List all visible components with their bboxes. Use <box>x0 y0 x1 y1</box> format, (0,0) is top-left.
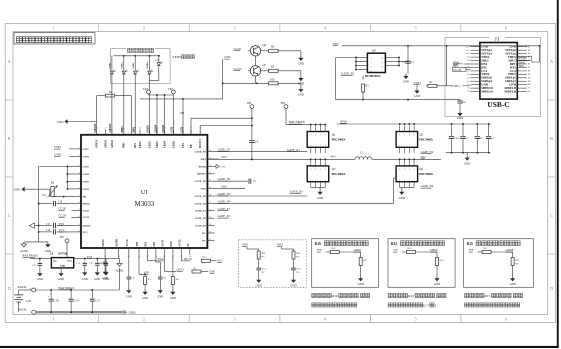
svg-text:Q7: Q7 <box>263 63 267 67</box>
svg-text:NC: NC <box>296 256 300 259</box>
svg-text:7VS: 7VS <box>393 249 398 252</box>
svg-text:8: 8 <box>320 134 321 136</box>
svg-text:GND: GND <box>126 296 132 299</box>
wire TH pin <box>53 196 75 198</box>
svg-text:26: 26 <box>209 209 211 211</box>
wire LTN vertical <box>222 59 224 99</box>
svg-text:A4: A4 <box>467 73 470 76</box>
svg-text:PDC3966X: PDC3966X <box>419 172 434 176</box>
svg-text:CSN1: CSN1 <box>83 155 90 158</box>
svg-text:38: 38 <box>182 128 184 130</box>
svg-text:3: 3 <box>79 165 80 167</box>
svg-text:GATE_N3: GATE_N3 <box>290 189 303 193</box>
transistor Q6 <box>250 46 260 56</box>
connector J1 body <box>480 43 517 100</box>
svg-text:12: 12 <box>78 230 80 232</box>
svg-text:8: 8 <box>315 169 316 171</box>
svg-text:31: 31 <box>209 172 211 174</box>
svg-text:J1: J1 <box>495 36 500 42</box>
U1 bottom pin names rotated <box>104 248 106 255</box>
ground below C12 <box>84 270 86 272</box>
svg-text:A3: A3 <box>467 76 470 79</box>
svg-text:NC: NC <box>262 271 266 274</box>
svg-text:29: 29 <box>209 187 211 189</box>
svg-text:9: 9 <box>79 209 80 211</box>
svg-text:GATE_N4: GATE_N4 <box>195 202 207 205</box>
capacitor C11 under pin13 <box>104 255 106 262</box>
svg-text:GPIO3: GPIO3 <box>111 139 114 148</box>
U1 PGND inline ground <box>215 165 217 167</box>
svg-text:CC1P: CC1P <box>234 47 242 51</box>
ground below C2 <box>459 111 461 113</box>
svg-text:S1: S1 <box>467 88 469 90</box>
ground GND left of thermistor <box>22 187 25 192</box>
note box R12 battery cell-count select resistor <box>388 239 455 288</box>
capacitor C14 <box>70 290 72 299</box>
capacitor C3 <box>488 124 490 136</box>
svg-text:LED4: LED4 <box>163 141 166 148</box>
svg-text:B11: B11 <box>528 81 531 83</box>
ground below Q3 <box>319 190 321 192</box>
ground GND pair right <box>47 242 49 244</box>
capacitor C9 under U1 <box>128 255 130 277</box>
svg-text:LED2: LED2 <box>121 62 123 69</box>
svg-text:VCC8: VCC8 <box>126 239 129 247</box>
svg-text:8: 8 <box>399 134 400 136</box>
svg-text:R12: R12 <box>391 242 397 246</box>
svg-text:PB: PB <box>190 144 193 148</box>
svg-text:BAT NMAX: BAT NMAX <box>23 253 39 257</box>
svg-text:48: 48 <box>96 128 98 130</box>
ground below C8 <box>159 288 161 290</box>
battery G1B <box>18 290 20 295</box>
svg-text:2: 2 <box>79 155 80 157</box>
capacitor C13 bottom <box>91 290 93 299</box>
ground below U2 <box>60 268 62 271</box>
svg-text:6: 6 <box>505 25 507 30</box>
svg-text:GND: GND <box>298 63 304 66</box>
svg-text:GND: GND <box>220 166 225 169</box>
svg-text:PACK: PACK <box>18 285 27 289</box>
net label OUT1 and resistor R3 <box>163 255 165 272</box>
wire GATE_N3 <box>215 195 308 197</box>
analog ground AGND pair <box>24 241 48 243</box>
capacitor C4 bootstrap <box>249 140 254 142</box>
transistor Q5 RU30E40A2 <box>367 53 385 72</box>
svg-text:A6: A6 <box>467 66 470 69</box>
capacitor RC1 NC <box>256 267 261 269</box>
svg-text:GPIO1: GPIO1 <box>96 139 99 148</box>
ground GND feed left of U1 <box>65 119 68 124</box>
svg-text:CSP1: CSP1 <box>83 148 90 151</box>
analog ground AGND left arrow <box>30 223 35 228</box>
wire Q5 sources to GATE_P2 <box>355 58 357 70</box>
capacitor CR2 polarized <box>50 290 52 299</box>
svg-text:5: 5 <box>79 180 80 182</box>
svg-text:GND: GND <box>464 162 470 165</box>
svg-text:BOOT2: BOOT2 <box>197 173 206 176</box>
Q5 right pin stubs <box>385 57 399 59</box>
svg-text:B10: B10 <box>528 77 531 79</box>
svg-text:CSP1: CSP1 <box>452 84 460 88</box>
svg-text:GND: GND <box>102 277 108 280</box>
ground below CSN1 <box>416 85 418 88</box>
svg-text:23: 23 <box>209 232 211 234</box>
resistor R5 <box>144 274 146 276</box>
svg-text:PGND: PGND <box>199 165 206 168</box>
svg-text:SW1: SW1 <box>242 243 249 247</box>
wire PACK+ rail <box>36 289 120 291</box>
svg-text:Q4: Q4 <box>419 167 423 171</box>
svg-text:Q6: Q6 <box>263 43 267 47</box>
svg-text:SYS: SYS <box>145 241 148 246</box>
svg-text:GATE_P2: GATE_P2 <box>218 214 231 218</box>
svg-text:PDC3966X: PDC3966X <box>419 138 434 142</box>
svg-text:GPIO0: GPIO0 <box>506 249 514 252</box>
svg-text:S4: S4 <box>528 91 530 93</box>
svg-text:8: 8 <box>315 134 316 136</box>
U1 right pin stubs and names <box>207 151 214 153</box>
svg-text:22: 22 <box>209 239 211 241</box>
svg-text:D: D <box>550 286 553 291</box>
ground below C15 <box>96 270 98 272</box>
net label CC1P at J1 right <box>518 56 532 60</box>
svg-text:8: 8 <box>310 169 311 171</box>
Q5 left pin stubs <box>356 57 367 59</box>
svg-text:BAT NMAX: BAT NMAX <box>289 120 306 124</box>
svg-text:A: A <box>550 59 553 64</box>
transistor Q1 PDC3966X <box>307 132 329 148</box>
transistor Q4 PDC3966X <box>396 166 418 182</box>
svg-text:SW2: SW2 <box>421 156 427 159</box>
svg-text:SHIELD: SHIELD <box>505 90 517 94</box>
svg-text:GATE_N2: GATE_N2 <box>421 150 434 154</box>
svg-text:CSP1: CSP1 <box>54 145 62 149</box>
svg-text:GATE_P2: GATE_P2 <box>341 72 355 76</box>
svg-text:6: 6 <box>79 187 80 189</box>
svg-text:CC1P: CC1P <box>58 207 66 211</box>
svg-text:GND: GND <box>399 197 405 200</box>
thermistor R6 NTC <box>51 187 54 197</box>
svg-text:S2: S2 <box>528 88 530 90</box>
svg-text:NC: NC <box>262 256 266 259</box>
svg-text:CR2: CR2 <box>54 300 60 303</box>
transistor Q7 <box>250 66 260 76</box>
svg-text:NC: NC <box>187 243 190 247</box>
wire VIN to C1 and USB area <box>342 45 447 47</box>
svg-text:LED1: LED1 <box>139 141 142 148</box>
svg-text:SW1: SW1 <box>201 158 207 161</box>
svg-text:GND: GND <box>60 265 66 268</box>
net label CC1N at J1 <box>452 67 466 71</box>
test point TP3 <box>147 90 151 94</box>
svg-text:45: 45 <box>123 128 125 130</box>
svg-text:GND: GND <box>434 283 440 286</box>
wires LEDs to U1 top pins <box>111 75 113 135</box>
svg-text:S: S <box>371 67 372 69</box>
svg-text:USB-C: USB-C <box>487 100 509 109</box>
svg-text:8: 8 <box>404 134 405 136</box>
svg-text:GND: GND <box>14 187 21 191</box>
svg-text:A8: A8 <box>467 59 470 62</box>
capacitor C7 <box>248 179 250 184</box>
svg-text:LDO33: LDO33 <box>83 225 92 228</box>
svg-text:2: 2 <box>143 316 145 321</box>
svg-text:GND: GND <box>457 117 463 120</box>
svg-text:A: A <box>8 59 11 64</box>
svg-text:NC: NC <box>515 263 519 266</box>
svg-text:46: 46 <box>111 128 113 130</box>
svg-text:Q5: Q5 <box>372 49 376 53</box>
svg-text:A5: A5 <box>467 70 470 73</box>
svg-text:30: 30 <box>209 180 211 182</box>
svg-text:G1B: G1B <box>26 300 31 303</box>
svg-text:32: 32 <box>209 165 211 167</box>
svg-text:GATE_N1: GATE_N1 <box>218 148 231 152</box>
svg-text:CSP2: CSP2 <box>83 165 90 168</box>
svg-text:LED5:: LED5: <box>173 55 182 59</box>
svg-text:1: 1 <box>409 145 410 147</box>
svg-text:GPIO2: GPIO2 <box>105 139 108 148</box>
svg-text:R15: R15 <box>467 242 473 246</box>
svg-text:8: 8 <box>409 169 410 171</box>
wire sense pins bus <box>67 166 74 168</box>
U1 top pin names rotated <box>96 130 98 135</box>
svg-text:36: 36 <box>199 128 201 130</box>
svg-text:R15: R15 <box>485 294 491 298</box>
svg-text:LED0: LED0 <box>172 141 175 148</box>
svg-text:1: 1 <box>52 25 54 30</box>
svg-text:34: 34 <box>209 150 211 152</box>
svg-text:GND: GND <box>358 283 364 286</box>
svg-text:B9: B9 <box>528 74 530 76</box>
svg-text:GATE_P1: GATE_P1 <box>218 207 231 211</box>
svg-text:CC1N: CC1N <box>83 216 90 219</box>
ground below C1 <box>405 74 407 76</box>
capacitor C2 <box>459 100 461 101</box>
svg-text:R12: R12 <box>408 294 414 298</box>
ground below R8 <box>300 51 302 56</box>
svg-text:DP1: DP1 <box>134 143 137 148</box>
svg-text:TVS: TVS <box>58 222 64 226</box>
ground below Q4 <box>401 190 403 192</box>
LED LED4 <box>148 70 150 71</box>
svg-text:8: 8 <box>409 134 410 136</box>
svg-text:OUT1: OUT1 <box>177 268 185 272</box>
svg-text:GND: GND <box>414 95 420 98</box>
svg-text:B2: B2 <box>528 50 530 52</box>
svg-text:33: 33 <box>209 158 211 160</box>
wire cap bank bottom <box>446 152 490 154</box>
svg-text:41: 41 <box>156 128 158 130</box>
capacitor C18 <box>39 203 53 205</box>
svg-text:SW1: SW1 <box>221 155 227 159</box>
wire VBUS bottom run <box>336 99 460 101</box>
svg-text:D: D <box>8 286 11 291</box>
svg-text:GPIO2: GPIO2 <box>430 249 438 252</box>
svg-text:GATE_N2: GATE_N2 <box>218 177 231 181</box>
wire SW2 node <box>372 158 441 160</box>
svg-text:S: S <box>371 63 372 65</box>
svg-text:TP2: TP2 <box>168 88 173 91</box>
svg-text:GND: GND <box>290 285 296 288</box>
IC U1 M3033 <box>81 135 207 248</box>
resistor R22 NC <box>293 249 295 251</box>
svg-text:1: 1 <box>79 147 80 149</box>
svg-text:GND: GND <box>142 297 148 300</box>
svg-text:NC: NC <box>202 232 206 235</box>
svg-text:8: 8 <box>414 134 415 136</box>
svg-text:7VS: 7VS <box>317 249 322 252</box>
ground below R10 <box>300 83 302 87</box>
svg-text:SYS1: SYS1 <box>158 257 166 261</box>
svg-text:GND: GND <box>256 285 262 288</box>
svg-text:1: 1 <box>404 180 405 182</box>
svg-text:SW2: SW2 <box>221 185 227 189</box>
svg-text:B8: B8 <box>528 71 530 73</box>
svg-text:11: 11 <box>78 224 80 226</box>
svg-text:LED1: LED1 <box>110 62 112 69</box>
resistor R1 <box>426 85 428 87</box>
svg-text:GND: GND <box>82 278 88 281</box>
svg-text:GPIO1: GPIO1 <box>354 249 362 252</box>
ground below C13 <box>39 271 41 273</box>
wire LED box top bus <box>114 55 161 57</box>
svg-text:LED3: LED3 <box>156 141 159 148</box>
svg-text:1: 1 <box>320 180 321 182</box>
svg-text:GND: GND <box>510 283 516 286</box>
svg-text:10: 10 <box>78 216 80 218</box>
svg-text:GATE_N2: GATE_N2 <box>195 180 207 183</box>
svg-text:DM1: DM1 <box>123 142 126 148</box>
svg-text:VCC: VCC <box>83 231 89 234</box>
resistor R10 <box>269 82 279 85</box>
svg-text:LTN: LTN <box>225 55 232 59</box>
connector J1 designator <box>489 34 505 41</box>
svg-text:GND: GND <box>170 297 176 300</box>
resistor R21 NC <box>258 249 260 251</box>
svg-text:8: 8 <box>399 169 400 171</box>
svg-text:SW1: SW1 <box>330 155 336 159</box>
svg-text:GND: GND <box>94 278 100 281</box>
svg-text:TVS: TVS <box>87 255 93 259</box>
wire caps row to AGND node <box>109 258 120 260</box>
svg-text:5: 5 <box>415 316 417 321</box>
svg-text:8: 8 <box>414 169 415 171</box>
svg-text:CSN3: CSN3 <box>83 188 90 191</box>
svg-text:R10: R10 <box>270 79 275 82</box>
svg-text:1: 1 <box>315 180 316 182</box>
LED LED1 <box>111 70 113 71</box>
svg-text:OUT1: OUT1 <box>162 239 165 247</box>
wire cap bank top <box>446 123 490 125</box>
svg-text:SYS1: SYS1 <box>340 119 348 123</box>
svg-text:LED3: LED3 <box>133 62 135 69</box>
svg-text:TP4: TP4 <box>247 102 252 105</box>
wire PACK- ground bus <box>36 311 123 313</box>
note text under R16 box <box>312 294 316 298</box>
svg-text:-: - <box>30 308 31 312</box>
svg-text:DP1: DP1 <box>519 64 525 68</box>
svg-text:B: B <box>550 136 553 141</box>
svg-text:37: 37 <box>190 128 192 130</box>
svg-text:GND: GND <box>157 296 163 299</box>
capacitor C8 <box>155 255 157 263</box>
svg-text:B3: B3 <box>528 53 530 55</box>
transistor Q3 PDC3966X <box>307 166 329 182</box>
svg-text:1: 1 <box>315 145 316 147</box>
test point TP5 <box>284 105 288 109</box>
svg-text:S3: S3 <box>467 91 469 93</box>
LED LED3 <box>134 70 136 71</box>
svg-text:VIN: VIN <box>333 42 340 46</box>
svg-text:B4: B4 <box>528 57 530 59</box>
svg-text:5: 5 <box>415 25 417 30</box>
svg-text:1: 1 <box>404 145 405 147</box>
wire LTN horizontal to left <box>140 98 223 100</box>
svg-text:B1: B1 <box>528 46 530 48</box>
wire R7 left drop to U1 <box>96 96 98 135</box>
ground below C9 <box>128 288 130 290</box>
svg-text:1: 1 <box>409 180 410 182</box>
svg-text:CC1N: CC1N <box>234 67 243 71</box>
svg-text:GATE_N1: GATE_N1 <box>287 148 300 152</box>
svg-text:1: 1 <box>399 180 400 182</box>
svg-text:BT7536: BT7536 <box>59 253 68 256</box>
svg-text:M3033: M3033 <box>135 201 155 208</box>
ground below C10 <box>105 270 107 272</box>
svg-text:CSN1: CSN1 <box>54 153 62 157</box>
svg-text:GND: GND <box>129 311 137 315</box>
svg-text:42: 42 <box>148 128 150 130</box>
wire GATE_N1 <box>215 151 308 153</box>
note box R15 input-power select resistor <box>464 239 534 288</box>
svg-text:BOOT1: BOOT1 <box>199 139 202 148</box>
wire BAT NMAX to U2 <box>30 258 51 260</box>
wire J1 top bus <box>447 45 540 47</box>
svg-text:CSN2: CSN2 <box>83 173 90 176</box>
svg-text:GND: GND <box>57 120 64 124</box>
svg-text:A10: A10 <box>466 52 470 55</box>
svg-text:GND: GND <box>403 81 409 84</box>
svg-text:GATE_N3: GATE_N3 <box>195 195 207 198</box>
svg-text:NC: NC <box>202 239 206 242</box>
svg-text:GATE_N4: GATE_N4 <box>421 184 434 188</box>
svg-text:8: 8 <box>404 169 405 171</box>
ground below R9 <box>300 71 302 76</box>
svg-text:R15: R15 <box>483 247 488 250</box>
svg-text:AGND: AGND <box>116 270 124 273</box>
resistor R9 <box>260 70 269 72</box>
svg-text:CC1N: CC1N <box>58 214 67 218</box>
svg-text:7VS: 7VS <box>469 249 474 252</box>
svg-text:C: C <box>550 213 553 218</box>
wire R7 right drop to U1 <box>130 96 132 135</box>
svg-text:A2: A2 <box>467 80 470 83</box>
svg-text:GATE_N4: GATE_N4 <box>218 199 231 203</box>
transistor Q2 PDC3966X <box>396 132 418 148</box>
net label OUT2 and resistor R11 <box>180 255 182 261</box>
svg-text:Q1: Q1 <box>332 133 336 137</box>
wire GATE_N2 to C7 <box>215 180 249 182</box>
svg-text:TP3: TP3 <box>143 88 148 91</box>
svg-text:VIN: VIN <box>136 242 139 247</box>
note text under R12 box <box>388 294 392 298</box>
svg-text:OUT2: OUT2 <box>179 239 182 247</box>
svg-text:AGND: AGND <box>116 239 119 247</box>
resistor R7 <box>97 95 105 97</box>
svg-text:R16: R16 <box>332 294 338 298</box>
